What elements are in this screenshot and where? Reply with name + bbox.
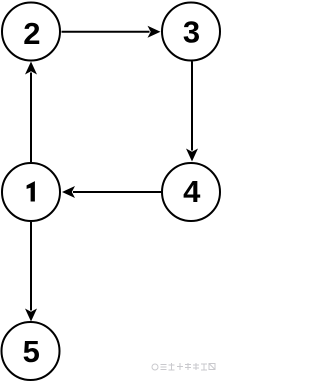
wire 3->4 [186,62,198,162]
svg-text:4: 4 [183,174,201,209]
svg-text:5: 5 [23,334,40,369]
node 1 [2,163,60,221]
wire 1->2 [25,62,37,163]
node 2 [2,3,60,61]
arrowhead into node 3 [148,26,161,38]
arrowhead into node 2 [25,62,37,75]
node 5 [2,322,60,380]
arrowhead into node 1 [62,186,75,198]
wire 4->1 [62,186,162,198]
wire 2->3 [62,26,161,38]
watermark [152,363,215,370]
node 3 [162,3,220,61]
arrowhead into node 4 [186,149,198,162]
svg-text:3: 3 [183,15,200,50]
arrowhead into node 5 [25,309,37,322]
node 4 [162,163,220,221]
wire 1->5 [25,222,37,322]
svg-text:2: 2 [23,16,40,51]
